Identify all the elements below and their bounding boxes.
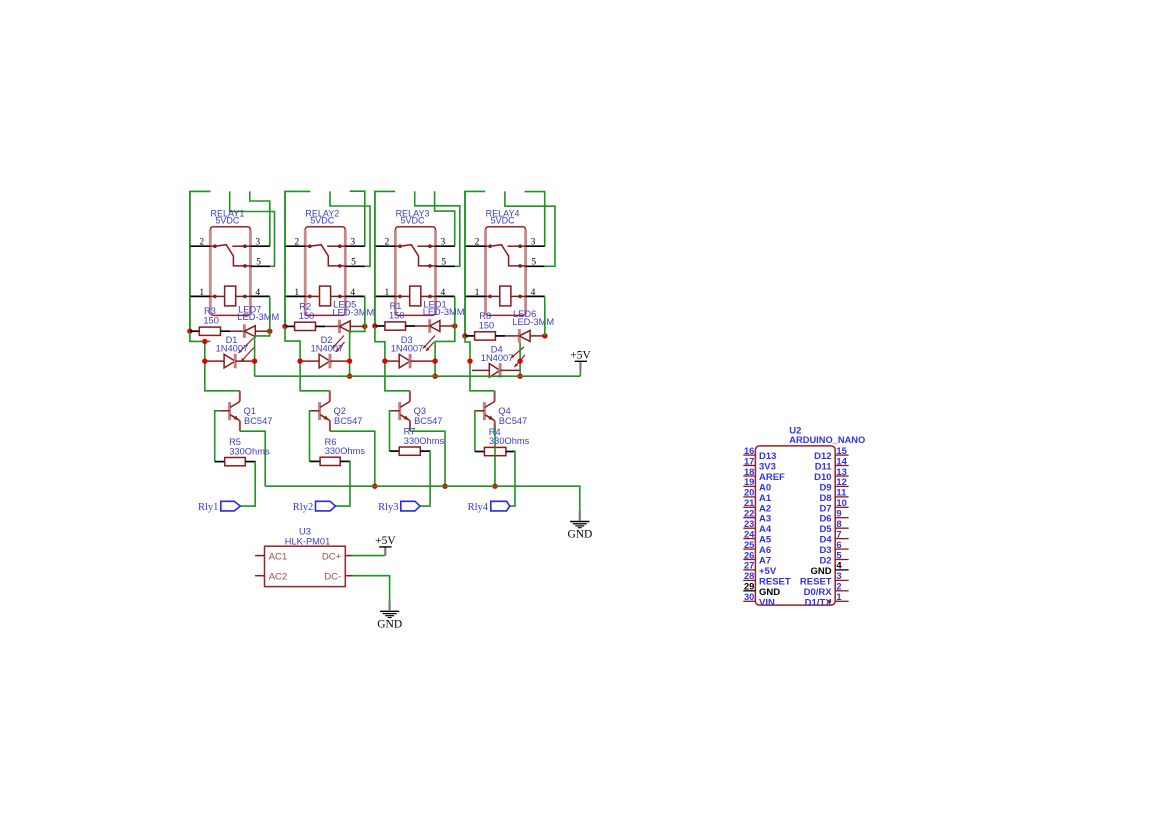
relay RELAY2 pin 4 xyxy=(345,295,365,297)
relay RELAY3 body xyxy=(395,227,435,316)
svg-text:14: 14 xyxy=(836,455,847,466)
svg-text:LED-3MM: LED-3MM xyxy=(237,312,279,322)
wire R5 to Rly1 xyxy=(240,462,255,507)
svg-text:7: 7 xyxy=(836,528,841,539)
relay RELAY3 pin 5 xyxy=(436,265,456,267)
LED LED6 arrows xyxy=(511,347,524,358)
svg-text:GND: GND xyxy=(377,618,402,630)
svg-text:R2: R2 xyxy=(299,301,311,311)
junction R8 left xyxy=(462,333,467,338)
svg-text:+5V: +5V xyxy=(375,535,396,547)
junction stub xyxy=(202,339,207,344)
wire RELAY3 pin2 loop xyxy=(375,191,395,326)
wire LED5 cathode to D2 cathode xyxy=(350,326,365,376)
svg-text:5: 5 xyxy=(351,258,356,268)
wire GND rail xyxy=(265,486,580,510)
U2 pin 14 D11 xyxy=(835,465,848,467)
junction GND rail xyxy=(442,484,447,489)
wire R6 to Rly2 xyxy=(336,461,351,506)
svg-text:4: 4 xyxy=(350,288,355,298)
U2 pin 30 VIN xyxy=(743,600,755,602)
svg-text:Q2: Q2 xyxy=(334,406,346,416)
relay RELAY4 coil xyxy=(486,295,491,297)
wire Q4 emitter to GND rail xyxy=(494,425,496,486)
svg-text:1: 1 xyxy=(836,591,841,602)
svg-text:24: 24 xyxy=(744,528,755,539)
diode D3 xyxy=(387,360,399,362)
svg-text:2: 2 xyxy=(294,238,299,248)
svg-text:23: 23 xyxy=(744,518,754,529)
wire R3 to D1 xyxy=(190,331,240,391)
svg-text:25: 25 xyxy=(744,539,754,550)
svg-text:330Ohms: 330Ohms xyxy=(404,436,445,446)
junction D2 cathode xyxy=(347,358,352,363)
svg-text:D3: D3 xyxy=(819,545,831,556)
relay RELAY1 pin 5 xyxy=(250,265,270,267)
svg-text:Rly4: Rly4 xyxy=(468,502,489,513)
resistor R7 xyxy=(390,450,400,452)
relay RELAY2 pin 2 xyxy=(285,245,305,247)
junction +5V rail xyxy=(517,374,522,379)
svg-text:HLK-PM01: HLK-PM01 xyxy=(285,537,330,547)
transistor Q1 xyxy=(228,402,231,420)
svg-text:5: 5 xyxy=(256,258,261,268)
resistor R6 xyxy=(310,460,321,462)
wire RELAY1 pin2 loop xyxy=(190,191,211,331)
wire RELAY4 pin5 route xyxy=(505,191,555,266)
svg-text:150: 150 xyxy=(299,311,315,321)
wire RELAY1 pin4 to LED7 xyxy=(269,296,271,331)
U2 pin 7 D4 xyxy=(835,538,848,540)
relay RELAY3 pin 3 xyxy=(436,245,455,247)
U2 pin 16 D13 xyxy=(743,454,755,456)
svg-text:D6: D6 xyxy=(819,514,831,525)
junction mid xyxy=(517,358,522,363)
svg-text:2: 2 xyxy=(475,238,480,248)
svg-text:8: 8 xyxy=(836,518,841,529)
svg-text:18: 18 xyxy=(744,466,754,477)
resistor R1 xyxy=(375,325,385,327)
U3 pin AC1 xyxy=(255,555,264,557)
power +5V symbol xyxy=(579,361,581,369)
wire RELAY2 pin5 route xyxy=(330,191,370,266)
svg-text:21: 21 xyxy=(744,497,754,508)
svg-text:D8: D8 xyxy=(819,493,831,504)
relay RELAY3 pin 4 xyxy=(436,295,455,297)
svg-text:16: 16 xyxy=(744,445,754,456)
relay RELAY3 pin 2 xyxy=(375,245,396,247)
svg-text:27: 27 xyxy=(744,560,754,571)
svg-text:LED-3MM: LED-3MM xyxy=(332,307,374,317)
U2 pin 2 D0/RX xyxy=(835,590,848,592)
svg-text:4: 4 xyxy=(531,288,536,298)
svg-text:5VDC: 5VDC xyxy=(310,216,335,226)
svg-text:R8: R8 xyxy=(479,311,491,321)
junction LED5 right xyxy=(362,324,367,329)
svg-text:1N4007: 1N4007 xyxy=(391,344,424,354)
relay RELAY1 pin 1 xyxy=(190,295,210,297)
svg-text:AC1: AC1 xyxy=(269,551,288,562)
svg-text:A0: A0 xyxy=(759,482,771,493)
svg-text:D12: D12 xyxy=(814,451,831,462)
wire Q2 base xyxy=(310,411,311,462)
U2 pin 20 A1 xyxy=(743,496,755,498)
relay RELAY2 switch contacts xyxy=(305,245,310,247)
wire RELAY2 coil- left rail xyxy=(284,191,286,326)
svg-text:150: 150 xyxy=(389,311,405,321)
U2 pin 12 D9 xyxy=(835,485,848,487)
svg-text:GND: GND xyxy=(810,566,831,577)
svg-text:A4: A4 xyxy=(759,524,772,535)
wire +5V rail xyxy=(255,375,581,377)
svg-text:6: 6 xyxy=(836,539,841,550)
junction D3 anode xyxy=(382,358,387,363)
transistor Q3 xyxy=(398,402,401,420)
svg-text:5: 5 xyxy=(441,258,446,268)
svg-text:150: 150 xyxy=(203,316,219,326)
svg-text:2: 2 xyxy=(199,238,204,248)
wire R2 to D2 xyxy=(285,326,330,390)
LED LED7 xyxy=(230,330,244,332)
svg-text:D2: D2 xyxy=(819,556,831,567)
svg-text:Rly3: Rly3 xyxy=(378,502,398,513)
wire Q1 base xyxy=(215,411,221,462)
wire RELAY1 coil- left rail xyxy=(189,191,191,331)
junction D1 cathode xyxy=(252,358,257,363)
U3 pin DC- xyxy=(345,575,353,577)
svg-text:BC547: BC547 xyxy=(414,416,442,426)
svg-text:D10: D10 xyxy=(814,472,831,483)
svg-text:GND: GND xyxy=(567,529,592,541)
connector Rly1 xyxy=(221,501,241,511)
wire RELAY2 pin2 loop xyxy=(285,191,310,326)
svg-text:20: 20 xyxy=(744,487,754,498)
svg-text:A3: A3 xyxy=(759,514,771,525)
svg-text:5VDC: 5VDC xyxy=(215,216,240,226)
svg-text:4: 4 xyxy=(255,288,260,298)
svg-text:R1: R1 xyxy=(390,301,402,311)
svg-text:1: 1 xyxy=(385,288,390,298)
relay RELAY1 switch contacts xyxy=(210,245,215,247)
svg-text:RESET: RESET xyxy=(800,576,832,587)
svg-text:BC547: BC547 xyxy=(334,416,362,426)
wire R1 to D3 xyxy=(375,326,410,391)
LED LED7 arrows xyxy=(239,338,254,353)
svg-text:28: 28 xyxy=(744,570,754,581)
U2 pin 11 D8 xyxy=(835,496,848,498)
junction R1 left xyxy=(372,323,377,328)
relay RELAY4 pin 2 xyxy=(465,245,486,247)
module U3 body xyxy=(265,546,346,586)
svg-text:RESET: RESET xyxy=(759,576,791,587)
wire DC- to GND xyxy=(353,576,389,601)
wire LED7 cathode to D1 cathode xyxy=(255,331,270,376)
U2 pin 27 +5V xyxy=(743,569,755,571)
connector Rly2 xyxy=(316,501,336,511)
svg-text:1N4007: 1N4007 xyxy=(481,353,514,363)
resistor R3 xyxy=(190,330,199,332)
svg-text:ARDUINO_NANO: ARDUINO_NANO xyxy=(789,435,865,445)
svg-text:U3: U3 xyxy=(299,527,311,537)
svg-text:1N4007: 1N4007 xyxy=(311,344,344,354)
svg-text:30: 30 xyxy=(744,591,754,602)
relay RELAY4 pin 5 xyxy=(526,265,545,267)
junction +5V rail xyxy=(432,374,437,379)
relay RELAY1 coil xyxy=(210,295,215,297)
svg-text:3: 3 xyxy=(350,238,355,248)
junction D1 anode xyxy=(202,358,207,363)
U3 pin AC2 xyxy=(255,575,264,577)
relay RELAY3 pin 1 xyxy=(375,295,396,297)
svg-text:26: 26 xyxy=(744,549,754,560)
svg-text:Q3: Q3 xyxy=(414,406,426,416)
U2 pin 15 D12 xyxy=(835,454,848,456)
svg-text:330Ohms: 330Ohms xyxy=(325,446,366,456)
wire Q1 emitter to GND rail xyxy=(240,431,265,486)
svg-text:13: 13 xyxy=(836,466,846,477)
U2 pin 19 A0 xyxy=(743,485,755,487)
U2 pin 21 A2 xyxy=(743,506,755,508)
LED LED5 xyxy=(325,325,339,327)
relay RELAY4 pin 3 xyxy=(526,245,545,247)
LED LED6 xyxy=(505,335,519,337)
relay RELAY2 pin 3 xyxy=(345,245,365,247)
svg-text:D5: D5 xyxy=(819,524,832,535)
svg-text:Rly2: Rly2 xyxy=(293,502,313,513)
diode D4 xyxy=(472,369,489,371)
svg-text:5: 5 xyxy=(531,258,536,268)
ground GND symbol U3 xyxy=(389,601,391,611)
LED LED5 arrows xyxy=(333,336,345,349)
svg-text:D1/TX: D1/TX xyxy=(805,597,833,608)
svg-text:1: 1 xyxy=(294,288,299,298)
svg-text:1N4007: 1N4007 xyxy=(216,344,249,354)
svg-text:R3: R3 xyxy=(204,306,216,316)
svg-text:A2: A2 xyxy=(759,503,771,514)
wire R4 to Rly4 xyxy=(510,452,516,507)
wire RELAY2 pin4 to LED5 xyxy=(364,296,366,326)
junction GND rail xyxy=(492,484,497,489)
wire RELAY3 pin5 route xyxy=(415,191,460,266)
svg-text:2: 2 xyxy=(385,238,390,248)
wire +5V stem xyxy=(579,369,581,376)
wire RELAY4 coil- left rail xyxy=(464,191,466,336)
svg-text:LED-3MM: LED-3MM xyxy=(423,307,465,317)
svg-text:LED-3MM: LED-3MM xyxy=(512,317,554,327)
wire RELAY2 pin3 route xyxy=(350,191,365,246)
junction +5V rail xyxy=(347,374,352,379)
svg-text:DC-: DC- xyxy=(324,572,341,583)
relay RELAY4 pin 1 xyxy=(465,295,486,297)
U2 pin 26 A7 xyxy=(743,559,755,561)
svg-text:A5: A5 xyxy=(759,535,772,546)
svg-text:AC2: AC2 xyxy=(269,572,288,583)
U2 pin 13 D10 xyxy=(835,475,848,477)
relay RELAY1 pin 3 xyxy=(250,245,269,247)
svg-text:+5V: +5V xyxy=(570,349,591,361)
wire DC+ to +5V xyxy=(353,555,385,557)
relay RELAY2 pin 1 xyxy=(285,295,305,297)
wire RELAY3 pin4 to LED1 xyxy=(454,296,456,326)
resistor R5 xyxy=(215,461,225,463)
U2 pin 17 3V3 xyxy=(743,465,755,467)
svg-text:D13: D13 xyxy=(759,451,776,462)
svg-text:BC547: BC547 xyxy=(499,416,527,426)
svg-text:4: 4 xyxy=(441,288,446,298)
svg-text:Q4: Q4 xyxy=(498,406,510,416)
diode D1 xyxy=(207,360,224,362)
U2 pin 5 D2 xyxy=(835,559,848,561)
wire Q3 base xyxy=(390,411,391,451)
svg-text:330Ohms: 330Ohms xyxy=(229,446,270,456)
connector Rly3 xyxy=(401,501,420,511)
U2 pin 3 RESET xyxy=(835,579,848,581)
U2 pin 1 D1/TX xyxy=(835,600,848,602)
U2 pin 23 A4 xyxy=(743,527,755,529)
resistor R4 xyxy=(475,451,485,453)
wire RELAY3 pin3 route xyxy=(435,191,455,246)
svg-text:5: 5 xyxy=(836,549,841,560)
resistor R2 xyxy=(285,325,295,327)
svg-text:3: 3 xyxy=(531,238,536,248)
svg-text:19: 19 xyxy=(744,476,754,487)
svg-text:BC547: BC547 xyxy=(244,416,272,426)
junction D4 anode xyxy=(467,358,472,363)
relay RELAY1 pin 2 xyxy=(190,245,210,247)
wire R8 to D4 xyxy=(465,336,495,391)
U3 pin DC+ xyxy=(345,555,353,557)
ground GND symbol xyxy=(579,510,581,521)
relay RELAY2 coil xyxy=(305,295,310,297)
U2 pin 25 A6 xyxy=(743,548,755,550)
svg-text:4: 4 xyxy=(836,560,842,571)
svg-text:29: 29 xyxy=(744,581,754,592)
ic U2 ARDUINO_NANO body xyxy=(755,446,835,605)
transistor Q4 xyxy=(483,402,486,420)
relay RELAY4 body xyxy=(486,227,526,316)
svg-text:1: 1 xyxy=(475,288,480,298)
svg-text:5VDC: 5VDC xyxy=(491,216,516,226)
U2 pin 8 D5 xyxy=(835,527,848,529)
wire RELAY1 pin5 route xyxy=(230,191,275,266)
wire LED1 cathode to D3 cathode xyxy=(435,326,455,376)
wire LED6 cathode down xyxy=(519,343,521,377)
svg-text:A6: A6 xyxy=(759,545,771,556)
svg-text:15: 15 xyxy=(836,445,846,456)
junction R2 left xyxy=(282,324,287,329)
transistor Q2 xyxy=(318,402,321,420)
svg-text:D9: D9 xyxy=(819,482,831,493)
svg-text:Q1: Q1 xyxy=(244,406,256,416)
svg-text:D4: D4 xyxy=(819,535,832,546)
U2 pin 22 A3 xyxy=(743,517,755,519)
svg-text:+5V: +5V xyxy=(759,566,777,577)
junction LED7 right xyxy=(267,329,272,334)
wire R7 to Rly3 xyxy=(420,451,430,506)
wire RELAY4 pin3 route xyxy=(525,192,545,247)
power +5V symbol U3 xyxy=(384,547,386,555)
U2 pin 4 GND xyxy=(835,569,848,571)
svg-text:3: 3 xyxy=(255,238,260,248)
svg-text:D0/RX: D0/RX xyxy=(804,587,833,598)
U2 pin 29 GND xyxy=(743,590,755,592)
junction LED6 right xyxy=(542,333,547,338)
relay RELAY3 coil xyxy=(395,295,400,297)
U2 pin 18 AREF xyxy=(743,475,755,477)
relay RELAY1 body xyxy=(210,227,250,316)
relay RELAY4 switch contacts xyxy=(486,245,491,247)
U2 pin1 marker dot xyxy=(828,600,831,603)
svg-text:VIN: VIN xyxy=(759,597,775,608)
wire Q3 emitter to GND rail xyxy=(410,431,445,486)
svg-text:D7: D7 xyxy=(819,503,831,514)
svg-text:Rly1: Rly1 xyxy=(198,502,218,513)
relay RELAY1 pin 4 xyxy=(250,295,269,297)
LED LED1 arrows xyxy=(423,336,435,349)
svg-text:5VDC: 5VDC xyxy=(400,216,425,226)
wire RELAY3 coil- left rail xyxy=(374,191,376,326)
wire Q4 base xyxy=(474,411,477,452)
svg-text:11: 11 xyxy=(836,487,846,498)
svg-text:10: 10 xyxy=(836,497,846,508)
relay RELAY3 switch contacts xyxy=(395,245,400,247)
junction D2 anode xyxy=(297,358,302,363)
relay RELAY4 pin 4 xyxy=(526,295,545,297)
junction GND rail xyxy=(372,484,377,489)
relay RELAY2 pin 5 xyxy=(345,265,365,267)
wire RELAY4 pin4 to LED6 xyxy=(544,296,546,336)
svg-text:22: 22 xyxy=(744,508,754,519)
svg-text:150: 150 xyxy=(479,320,495,330)
U2 pin 9 D6 xyxy=(835,517,848,519)
junction D3 cathode xyxy=(432,358,437,363)
LED LED1 xyxy=(415,325,430,327)
U2 pin 28 RESET xyxy=(743,579,755,581)
svg-text:3: 3 xyxy=(836,570,841,581)
svg-text:GND: GND xyxy=(759,587,780,598)
junction LED1 right xyxy=(452,323,457,328)
svg-text:DC+: DC+ xyxy=(322,551,342,562)
svg-text:9: 9 xyxy=(836,508,841,519)
svg-text:330Ohms: 330Ohms xyxy=(489,436,530,446)
wire Q2 emitter to GND rail xyxy=(330,431,375,486)
svg-text:A7: A7 xyxy=(759,556,771,567)
connector Rly4 xyxy=(491,501,510,511)
svg-text:3V3: 3V3 xyxy=(759,462,776,473)
U2 pin 6 D3 xyxy=(835,548,848,550)
diode D2 xyxy=(302,360,319,362)
svg-text:AREF: AREF xyxy=(759,472,785,483)
relay RELAY2 body xyxy=(305,227,345,316)
svg-text:12: 12 xyxy=(836,476,846,487)
resistor R8 xyxy=(465,335,475,337)
junction R3 left xyxy=(187,329,192,334)
svg-text:1: 1 xyxy=(199,288,204,298)
svg-text:17: 17 xyxy=(744,455,754,466)
wire RELAY1 pin3 route xyxy=(250,191,270,246)
U2 pin 10 D7 xyxy=(835,506,848,508)
svg-text:D11: D11 xyxy=(815,462,833,473)
wire RELAY4 pin2 loop xyxy=(465,191,485,336)
U2 pin 24 A5 xyxy=(743,538,755,540)
svg-text:3: 3 xyxy=(441,238,446,248)
svg-text:2: 2 xyxy=(836,581,841,592)
svg-text:A1: A1 xyxy=(759,493,772,504)
